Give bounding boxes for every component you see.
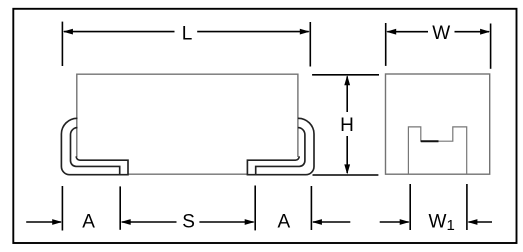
dimension S [120, 186, 255, 231]
capacitor body (side view, molded case) [77, 74, 298, 174]
svg-text:H: H [340, 115, 354, 136]
terminal (end view, notched plate) [408, 127, 466, 174]
dimension W1 [380, 184, 492, 230]
dimension A (right) [311, 186, 350, 230]
dimension L [62, 22, 310, 67]
svg-text:A: A [277, 212, 290, 233]
svg-text:L: L [182, 23, 193, 44]
dimension A (left) [26, 186, 62, 231]
svg-text:S: S [182, 212, 195, 233]
svg-text:W: W [432, 23, 450, 44]
terminal lead right (side view) [247, 118, 314, 174]
notch floor dark segment [421, 140, 439, 142]
terminal lead left (side view) [61, 118, 128, 174]
capacitor body (end view) [386, 74, 490, 174]
dimension H [312, 75, 379, 175]
svg-text:A: A [82, 212, 95, 233]
dimension W [386, 23, 491, 69]
